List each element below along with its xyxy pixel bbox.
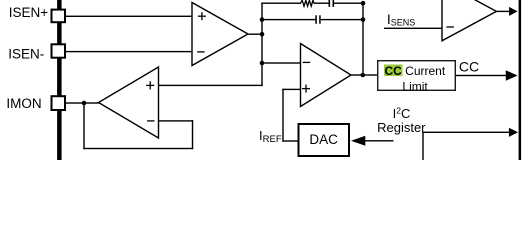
wire IREF to DAC [282, 140, 298, 141]
arrowhead Register to chip edge [509, 128, 518, 137]
wire ISENS to U4 - input [384, 28, 442, 29]
U1 minus glyph [197, 51, 205, 52]
wire Register corner down x=423 [422, 132, 423, 160]
wire IMON to U3 apex [66, 102, 100, 103]
op-amp U4 (comparator, top cut) [442, 0, 496, 41]
CC highlight green [384, 65, 403, 77]
arrowhead CC to chip edge [506, 70, 518, 80]
op-amp U2 [301, 44, 352, 107]
U3 plus glyph [146, 81, 154, 89]
wire I_REF vertical x=283 [282, 89, 283, 142]
junction dot node B mid (363,19.6) [361, 17, 366, 22]
svg-text:IMON: IMON [6, 96, 41, 111]
wire Register to chip edge [422, 132, 509, 133]
svg-text:Limit: Limit [402, 79, 428, 93]
box CC Current Limit [378, 61, 456, 91]
wire node A vertical x=262 [261, 3, 262, 87]
wire capacitor C1 to node B [334, 3, 364, 4]
svg-text:CC: CC [459, 59, 479, 75]
wire node B vertical x=363 [362, 2, 363, 76]
wire mid feedback y=19.6 left segment [262, 19, 316, 20]
junction dot node A top (262,19.6) [260, 17, 265, 22]
wire U4 output [496, 11, 510, 12]
op-amp U3 (IMON buffer, points left) [99, 67, 159, 138]
pin box IMON [52, 96, 66, 110]
wire node A to U2 - input [262, 62, 301, 63]
arrowhead U4 output to chip edge [509, 7, 517, 16]
pin box ISEN- [52, 44, 66, 57]
svg-text:ISEN+: ISEN+ [9, 5, 49, 20]
wire ISEN+ to U1 + input [66, 16, 192, 17]
wire U3 - input to feedback right [158, 120, 193, 121]
svg-text:DAC: DAC [309, 132, 338, 147]
wire node A down-left to U3 + input [158, 85, 263, 86]
U2 plus glyph [302, 85, 310, 93]
U4 minus glyph [446, 26, 454, 27]
wire register bus to DAC arrow [364, 140, 394, 141]
junction dot IMON node (84,103) [82, 101, 87, 106]
chip left edge (thick vertical bus) [57, 0, 62, 160]
wire U2 output to CC box [351, 74, 378, 75]
wire capacitor C2 to node B [321, 19, 364, 20]
svg-text:CC Current: CC Current [385, 64, 446, 78]
capacitor C2 [315, 15, 320, 23]
box DAC [299, 124, 350, 156]
wire resistor to capacitor C1 [314, 3, 330, 4]
wire feedback bottom y=148.5 [83, 148, 193, 149]
capacitor C1 [329, 0, 335, 7]
junction dot node A low (262,63) [260, 61, 265, 66]
op-amp U1 [192, 3, 248, 66]
wire feedback right vertical x=192.5 [192, 120, 193, 149]
U3 minus glyph [147, 120, 155, 121]
arrowhead into DAC right side [351, 136, 365, 146]
wire top feedback y=3.2 left segment [261, 3, 301, 4]
resistor R1 [301, 0, 315, 6]
wire U1 output to node A [248, 34, 263, 35]
junction dot node B out (362.7,75) [360, 73, 365, 78]
svg-text:Register: Register [377, 120, 426, 135]
wire CC box output [456, 75, 509, 76]
pin box ISEN+ [52, 10, 66, 23]
junction dot node B top (363,3.2) [361, 1, 366, 6]
svg-text:I2C: I2C [393, 105, 411, 121]
junction dot node A mid (262,34.2) [260, 32, 265, 37]
svg-text:ISEN-: ISEN- [8, 47, 44, 62]
wire ISEN- to U1 - input [66, 51, 192, 52]
chip right edge vertical line [519, 0, 522, 160]
U1 plus glyph [198, 12, 206, 20]
U2 minus glyph [303, 62, 311, 63]
wire I_REF vertical to U2 + input [282, 89, 300, 90]
wire feedback left vertical x=84 [83, 103, 84, 149]
